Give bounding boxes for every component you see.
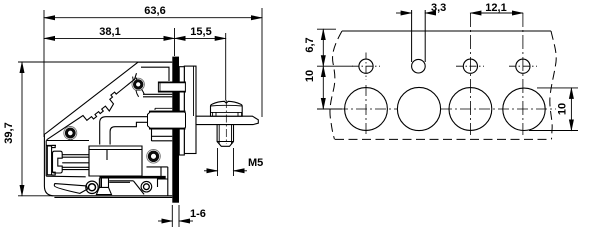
bottom edge second line — [54, 196, 172, 198]
M5 ext lines — [218, 148, 234, 176]
bracket inner slope wall with pocket — [47, 73, 137, 140]
upper rod double line — [143, 94, 172, 97]
svg-text:12,1: 12,1 — [485, 2, 506, 14]
foot diagonal — [134, 181, 145, 194]
panel bottom edge dashed — [335, 138, 551, 140]
ext lines 6,7 / 10 left — [317, 29, 353, 109]
svg-text:10: 10 — [304, 70, 316, 82]
bottom hole left — [86, 181, 98, 193]
large hole 1 — [345, 88, 388, 131]
svg-text:39,7: 39,7 — [3, 122, 15, 143]
panel top edge — [330, 31, 556, 139]
svg-text:10: 10 — [557, 103, 569, 115]
dim 38,1 — [44, 37, 175, 39]
vertical centreline column 3 — [469, 13, 471, 135]
screw flange plate — [196, 116, 258, 124]
claw L-tube elbow — [100, 117, 148, 145]
dark band under block — [99, 176, 165, 179]
dim 39,7 — [21, 62, 23, 196]
right ring hole — [147, 150, 161, 164]
svg-text:1-6: 1-6 — [190, 208, 206, 220]
left piston rod — [62, 146, 89, 176]
vertical centreline column 1 — [365, 85, 367, 135]
foot pedestal — [96, 178, 111, 194]
svg-text:38,1: 38,1 — [99, 26, 120, 38]
ext line x=225.7 — [225, 33, 227, 101]
screw centreline — [225, 100, 227, 144]
large hole 2 — [397, 87, 440, 130]
centre block — [89, 146, 142, 176]
foot slot wedge — [54, 184, 87, 194]
lower rod double line — [152, 130, 173, 142]
ext line x=262 — [261, 8, 263, 117]
inner left wall — [45, 141, 47, 177]
upper ring hole — [132, 77, 144, 97]
small hole 2 (drill Ø3,3) — [412, 10, 426, 73]
vertical centreline column 4 — [522, 13, 524, 135]
svg-text:6,7: 6,7 — [304, 37, 316, 52]
1-6 ext lines — [172, 205, 179, 227]
ext line left x=44 — [43, 10, 45, 137]
svg-text:M5: M5 — [248, 157, 263, 169]
ext lines 10 right — [529, 88, 578, 131]
horizontal centreline large holes — [318, 108, 397, 110]
panel bar (black) — [172, 57, 179, 203]
rail strip left — [47, 145, 55, 175]
bracket inner top line — [141, 67, 169, 81]
panel left break edge — [330, 31, 342, 139]
dim 3,3 — [396, 12, 412, 14]
foot strip top lines — [46, 176, 133, 182]
large hole 3 — [449, 88, 492, 131]
M5 dim arrows — [204, 170, 218, 172]
dim 10 left — [322, 66, 324, 109]
lower-left ring hole — [64, 127, 77, 141]
ext line top y=62 — [18, 61, 172, 63]
svg-text:3,3: 3,3 — [431, 2, 446, 14]
dim 6,7 — [322, 29, 324, 66]
screw head — [211, 101, 243, 116]
claw gap line above block — [155, 108, 172, 110]
bottom hole right — [141, 181, 152, 192]
screw shaft M5 — [217, 125, 233, 147]
bracket outer outline — [44, 62, 172, 196]
ext line bottom y=194.5 — [18, 195, 53, 197]
small hole 4 — [509, 59, 537, 73]
dim 15,5 — [175, 37, 226, 39]
clamp block (over panel) — [148, 111, 186, 129]
dim 10 right — [570, 88, 572, 131]
C-claw left — [53, 151, 63, 173]
flange strips right of panel — [179, 66, 196, 155]
large hole 4 — [503, 88, 545, 130]
1-6 dim arrows — [158, 220, 172, 222]
svg-text:15,5: 15,5 — [190, 26, 211, 38]
svg-text:63,6: 63,6 — [144, 5, 165, 17]
dim 12,1 — [470, 12, 523, 14]
inner cavity top line — [46, 141, 89, 146]
step outline right of centre block — [147, 167, 168, 196]
dim 63,6 — [44, 17, 262, 19]
small hole 1 — [352, 53, 380, 81]
panel right break edge — [550, 31, 556, 139]
ext line x=174.5 — [174, 28, 176, 56]
small hole 3 — [456, 59, 484, 73]
top clamp claw (over panel) — [158, 82, 185, 92]
